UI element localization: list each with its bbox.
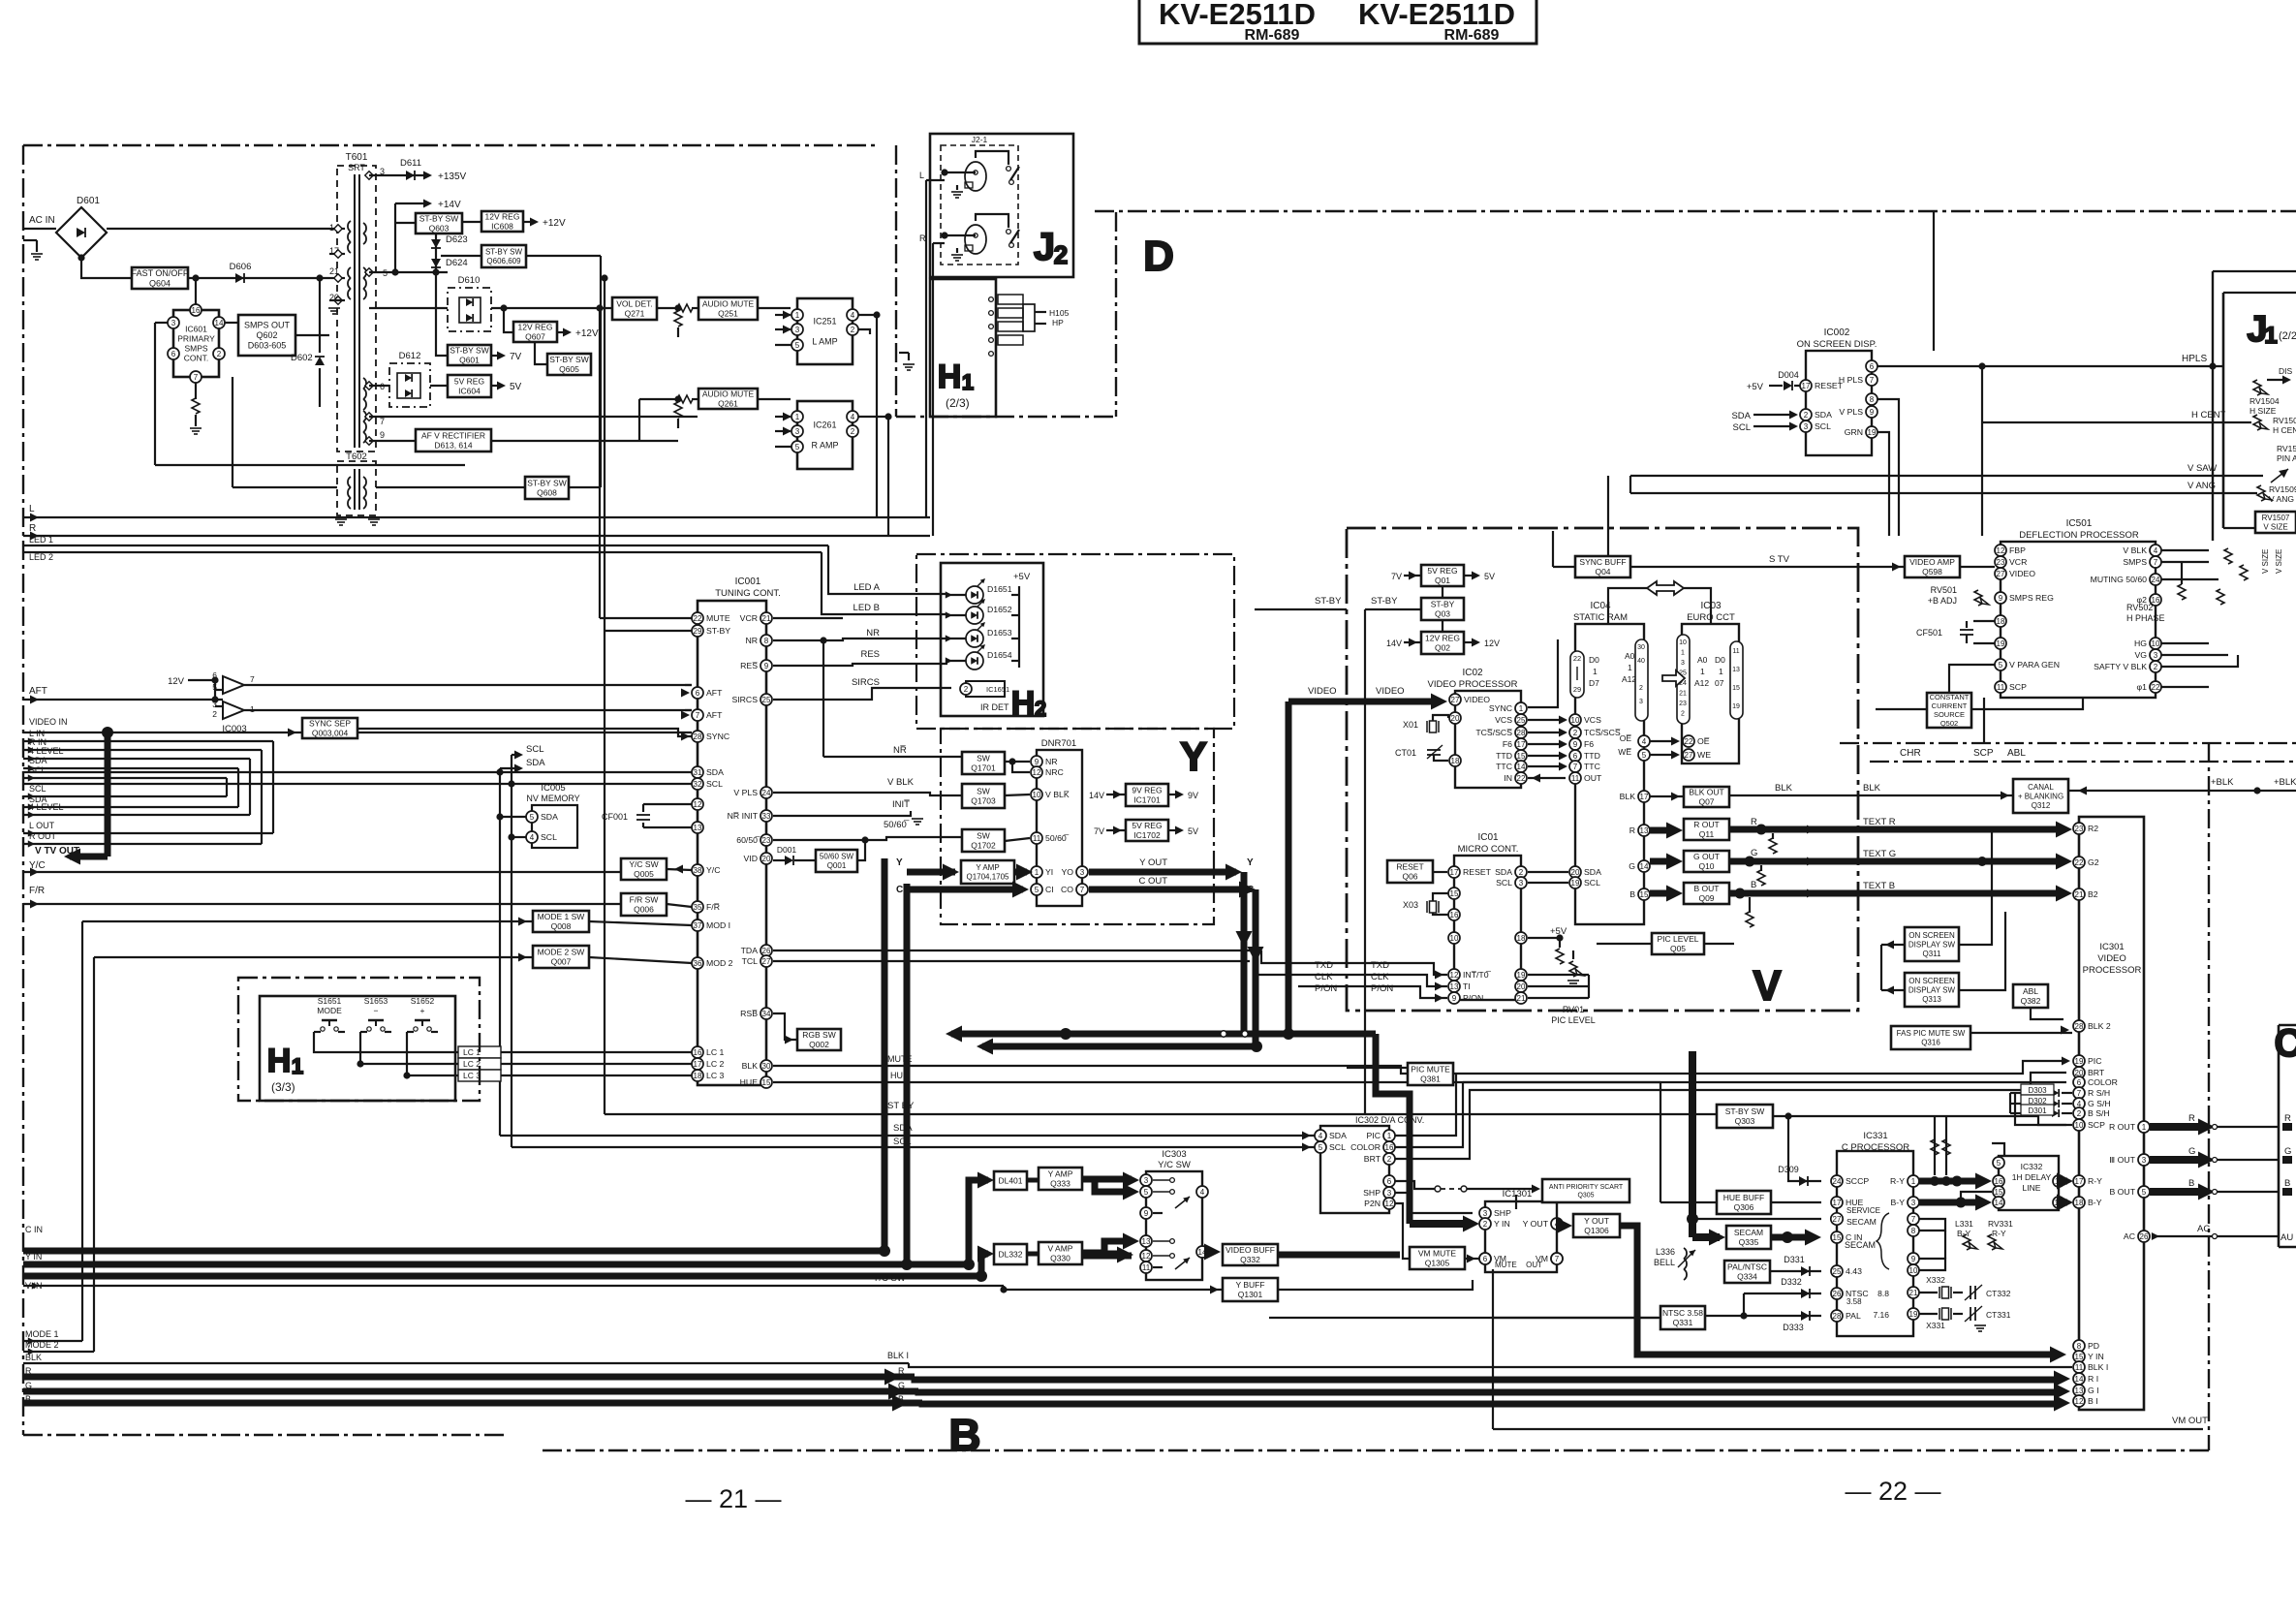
svg-text:+BLK: +BLK [2211,777,2234,788]
svg-text:4: 4 [1642,737,1647,746]
svg-text:9V: 9V [1188,791,1198,800]
svg-text:X01: X01 [1403,720,1418,730]
svg-text:CLK: CLK [1371,972,1389,982]
svg-text:7: 7 [380,417,385,426]
svg-text:14: 14 [215,319,224,327]
svg-text:D601: D601 [77,196,100,206]
svg-text:25: 25 [1517,716,1526,725]
svg-text:R: R [1751,817,1757,827]
svg-text:V BLK: V BLK [2123,545,2147,555]
svg-text:CO: CO [1061,885,1073,894]
svg-text:23: 23 [1997,558,2005,567]
svg-text:VG: VG [2134,650,2147,660]
svg-text:TI: TI [1463,981,1471,991]
svg-text:SDA: SDA [541,812,558,822]
svg-text:13: 13 [2075,1386,2084,1395]
svg-text:L AMP: L AMP [812,337,837,347]
svg-text:20: 20 [1517,982,1526,991]
svg-text:SYNC: SYNC [1489,703,1512,713]
svg-text:NV MEMORY: NV MEMORY [526,794,579,803]
svg-text:17: 17 [1802,382,1811,390]
svg-text:D610: D610 [458,275,481,286]
svg-text:SW: SW [977,831,990,841]
svg-text:TXD: TXD [1315,960,1333,971]
svg-text:11: 11 [1033,834,1041,843]
svg-text:VIDEO IN: VIDEO IN [29,717,68,727]
svg-text:D001: D001 [777,845,797,855]
svg-text:13: 13 [1732,667,1740,673]
svg-text:2: 2 [212,709,217,719]
svg-text:BLK: BLK [1863,783,1881,794]
svg-text:R OUT: R OUT [1693,820,1719,829]
svg-text:Y BUFF: Y BUFF [1235,1280,1264,1290]
svg-text:5: 5 [1035,886,1039,894]
svg-text:D1653: D1653 [987,628,1012,638]
svg-text:15: 15 [2075,1353,2084,1361]
svg-text:V SIZE: V SIZE [2263,523,2287,532]
svg-text:SAFTY V BLK: SAFTY V BLK [2094,662,2147,671]
svg-text:C: C [2275,1022,2296,1065]
svg-text:5V: 5V [1188,826,1198,836]
svg-text:−: − [374,1006,379,1015]
svg-text:9: 9 [1870,408,1875,417]
svg-text:10: 10 [1033,791,1041,799]
svg-text:D1654: D1654 [987,650,1012,660]
svg-text:R-Y: R-Y [2088,1176,2102,1186]
svg-text:2: 2 [1639,685,1643,692]
svg-text:B: B [2188,1178,2194,1189]
svg-text:10: 10 [1679,639,1687,646]
svg-text:G: G [2284,1146,2291,1157]
svg-text:24: 24 [2152,576,2160,584]
svg-text:20: 20 [1571,868,1580,877]
svg-text:11: 11 [1571,774,1580,783]
svg-text:10: 10 [1571,716,1580,725]
svg-text:5: 5 [795,341,800,350]
svg-text:RM-689: RM-689 [1444,27,1500,44]
svg-text:15: 15 [762,1078,771,1087]
svg-text:30: 30 [1637,644,1645,651]
svg-text:BLK: BLK [25,1353,42,1362]
svg-text:R OUT: R OUT [29,831,57,841]
svg-text:Q607: Q607 [525,332,545,342]
svg-text:V SIZE: V SIZE [2275,549,2283,574]
svg-text:C IN: C IN [25,1225,43,1234]
svg-text:RV1508: RV1508 [2273,416,2296,425]
svg-text:7: 7 [194,373,199,382]
svg-text:3: 3 [1519,879,1524,888]
svg-text:IC1651: IC1651 [986,685,1009,694]
svg-text:J2-1: J2-1 [972,135,988,144]
svg-text:28: 28 [1833,1312,1842,1321]
svg-text:21: 21 [1909,1289,1918,1297]
svg-text:1: 1 [1911,1177,1916,1186]
svg-text:— 21 —: — 21 — [685,1484,781,1513]
svg-text:H CENT: H CENT [2191,410,2226,421]
svg-text:4.43: 4.43 [1846,1266,1862,1276]
svg-text:LC 1: LC 1 [463,1047,481,1057]
svg-text:Q261: Q261 [718,399,738,409]
svg-text:7: 7 [1870,376,1875,385]
svg-text:3: 3 [171,319,176,327]
svg-text:Y IN: Y IN [2088,1352,2104,1361]
svg-text:2: 2 [1681,711,1685,718]
svg-text:H: H [267,1043,292,1079]
svg-text:D303: D303 [2028,1086,2047,1095]
svg-text:Q598: Q598 [1922,567,1942,576]
svg-text:HUE BUFF: HUE BUFF [1723,1193,1765,1202]
svg-text:Q1704,1705: Q1704,1705 [966,873,1009,882]
svg-text:SERVICE: SERVICE [1846,1206,1880,1215]
svg-text:25: 25 [762,696,771,704]
svg-text:B2: B2 [2088,889,2098,899]
svg-text:ST BY: ST BY [887,1101,915,1111]
svg-text:17: 17 [1517,740,1526,749]
svg-text:CHR: CHR [1900,748,1921,759]
svg-text:PIC MUTE: PIC MUTE [1411,1065,1450,1075]
svg-text:VCS: VCS [1495,715,1512,725]
svg-text:HUE: HUE [890,1071,909,1080]
svg-text:COLOR: COLOR [2088,1077,2118,1087]
svg-text:3: 3 [1911,1199,1916,1207]
svg-text:23: 23 [2075,825,2084,833]
svg-text:ST-BY SW: ST-BY SW [485,248,523,257]
svg-text:Q603: Q603 [429,224,450,234]
svg-text:Q333: Q333 [1050,1179,1070,1189]
svg-text:A12: A12 [1622,674,1636,684]
svg-text:LINE: LINE [2023,1183,2041,1193]
svg-text:16: 16 [1995,1177,2003,1186]
svg-text:6: 6 [1483,1255,1488,1263]
svg-text:18: 18 [1451,757,1460,765]
svg-text:13: 13 [1450,982,1459,991]
svg-text:BLK: BLK [1620,792,1636,801]
svg-text:22: 22 [1573,654,1581,663]
svg-text:RM-689: RM-689 [1245,27,1300,44]
svg-text:19: 19 [2075,1057,2084,1066]
svg-text:SCP: SCP [2088,1120,2105,1130]
svg-text:12V REG: 12V REG [1425,634,1460,643]
svg-text:4 LEVEL: 4 LEVEL [29,746,64,756]
svg-text:6: 6 [2077,1078,2082,1087]
svg-text:BLK 2: BLK 2 [2088,1021,2111,1031]
svg-text:LC 2: LC 2 [463,1059,481,1069]
svg-text:VCR: VCR [2009,557,2027,567]
svg-text:AFT: AFT [29,686,47,697]
svg-text:36: 36 [694,959,702,968]
svg-text:Q006: Q006 [634,905,654,915]
svg-text:2: 2 [1483,1220,1488,1229]
svg-text:TEXT B: TEXT B [1863,881,1895,891]
svg-text:— 22 —: — 22 — [1845,1477,1940,1506]
svg-text:3: 3 [795,326,800,334]
svg-text:B: B [1751,880,1756,890]
svg-text:Q604: Q604 [149,278,171,288]
svg-text:CURRENT: CURRENT [1932,701,1968,710]
svg-text:23: 23 [762,836,771,845]
svg-text:SCL: SCL [1496,878,1512,888]
svg-text:H105: H105 [1049,308,1070,318]
svg-text:VIDEO: VIDEO [1308,686,1337,697]
svg-text:10: 10 [2075,1121,2084,1130]
svg-text:Y IN: Y IN [1494,1219,1510,1229]
svg-text:3: 3 [1639,699,1643,705]
svg-text:H PLS: H PLS [1839,375,1863,385]
svg-text:Y: Y [1247,857,1254,868]
svg-text:1: 1 [292,1054,303,1078]
svg-text:3: 3 [795,427,800,436]
svg-text:PD: PD [2088,1341,2099,1351]
svg-text:+5V: +5V [1747,382,1764,392]
svg-text:TTD: TTD [1496,751,1512,761]
svg-text:9: 9 [1911,1255,1916,1263]
svg-text:V ANG: V ANG [2187,481,2216,491]
svg-text:PROCESSOR: PROCESSOR [2083,965,2142,976]
svg-text:ANTI PRIORITY SCART: ANTI PRIORITY SCART [1549,1184,1624,1191]
svg-text:5: 5 [1999,661,2003,670]
svg-text:5V REG: 5V REG [1132,821,1162,830]
svg-text:1: 1 [795,413,800,421]
svg-text:SYNC: SYNC [706,732,729,741]
svg-text:H SIZE: H SIZE [2249,406,2277,416]
svg-text:CLK: CLK [1315,972,1333,982]
svg-text:S1652: S1652 [411,996,435,1006]
svg-text:Y OUT: Y OUT [1523,1219,1549,1229]
svg-text:26: 26 [1833,1290,1842,1298]
svg-text:R OUT: R OUT [2109,1122,2136,1132]
svg-text:HPLS: HPLS [2182,354,2207,364]
svg-text:IC331: IC331 [1863,1131,1887,1141]
svg-text:NR: NR [1045,757,1058,766]
svg-text:23: 23 [1679,701,1687,707]
svg-text:B-Y: B-Y [2088,1198,2102,1207]
svg-text:8: 8 [2077,1342,2082,1351]
svg-text:ST-BY SW: ST-BY SW [549,355,588,364]
svg-text:14: 14 [1640,862,1649,871]
svg-text:Q003,004: Q003,004 [312,729,349,738]
svg-text:2: 2 [1804,411,1809,420]
svg-text:12: 12 [2075,1397,2084,1406]
svg-text:F/R SW: F/R SW [630,895,659,905]
svg-text:Q1701: Q1701 [971,763,996,773]
svg-text:27: 27 [1685,751,1693,760]
svg-text:NRC: NRC [1045,767,1064,777]
svg-text:18: 18 [1517,934,1526,943]
svg-text:IC604: IC604 [458,387,481,396]
svg-text:5V REG: 5V REG [454,377,484,387]
svg-text:Y/C SW: Y/C SW [1158,1160,1191,1170]
svg-text:3.58: 3.58 [1846,1297,1862,1306]
svg-text:6: 6 [696,689,700,698]
svg-text:IC1701: IC1701 [1133,795,1161,805]
svg-text:ABL: ABL [2023,986,2038,996]
svg-text:1H DELAY: 1H DELAY [2012,1172,2052,1182]
svg-text:MOD I: MOD I [706,920,730,930]
svg-text:32: 32 [694,780,702,789]
svg-text:Q316: Q316 [1921,1039,1940,1047]
svg-text:1: 1 [1628,663,1632,672]
svg-text:Q1306: Q1306 [1584,1226,1609,1235]
svg-text:Ⅲ OUT: Ⅲ OUT [2109,1155,2135,1165]
svg-text:NR̅: NR̅ [893,745,907,756]
svg-text:X331: X331 [1926,1321,1945,1330]
svg-text:Y/C: Y/C [706,865,720,875]
svg-text:A12: A12 [1694,678,1709,688]
svg-text:1: 1 [1681,650,1685,657]
svg-text:11: 11 [1732,648,1739,655]
svg-text:SCL: SCL [29,765,47,775]
svg-text:Q312: Q312 [2032,801,2051,810]
svg-text:F6: F6 [1584,739,1594,749]
svg-text:FBP: FBP [2009,545,2026,555]
svg-text:SYNC SEP: SYNC SEP [309,719,351,729]
svg-text:SDA: SDA [1495,867,1512,877]
svg-text:Q005: Q005 [634,869,654,879]
svg-text:AC IN: AC IN [29,215,55,226]
svg-text:PIC LEVEL: PIC LEVEL [1551,1015,1596,1025]
svg-text:19: 19 [1997,639,2005,648]
svg-text:DISPLAY SW: DISPLAY SW [1908,985,1956,994]
svg-text:AUDIO MUTE: AUDIO MUTE [702,389,755,399]
svg-text:2: 2 [217,350,222,358]
svg-text:12V REG: 12V REG [485,212,520,222]
svg-text:+B ADJ: +B ADJ [1928,596,1957,606]
svg-text:HG: HG [2134,639,2147,648]
svg-text:SYNC BUFF: SYNC BUFF [1579,557,1626,567]
svg-text:6: 6 [1387,1177,1392,1186]
svg-text:Q332: Q332 [1240,1255,1260,1264]
svg-text:60/50̅: 60/50̅ [736,835,760,845]
svg-text:11: 11 [1142,1263,1151,1272]
svg-text:LC 1: LC 1 [706,1047,725,1057]
svg-text:D611: D611 [400,158,421,169]
svg-text:2: 2 [1387,1155,1392,1164]
svg-text:+BLK: +BLK [2274,777,2296,788]
svg-text:31: 31 [694,768,702,777]
svg-text:2: 2 [1519,868,1524,877]
svg-text:SW: SW [977,787,990,796]
svg-text:Q605: Q605 [559,364,579,374]
svg-text:MUTE: MUTE [887,1054,913,1064]
svg-text:29: 29 [1573,685,1581,694]
svg-text:21: 21 [762,614,771,623]
svg-text:3: 3 [1681,660,1685,667]
svg-text:1: 1 [2142,1123,2147,1132]
svg-text:12: 12 [1033,768,1041,777]
svg-text:Q02: Q02 [1435,643,1450,653]
svg-text:1: 1 [795,311,800,320]
svg-text:VIDEO: VIDEO [2009,569,2035,578]
svg-text:4: 4 [851,413,855,421]
svg-text:5: 5 [1642,751,1647,760]
svg-text:1: 1 [1035,868,1039,877]
svg-text:Q502: Q502 [1940,719,1958,728]
svg-text:LC 2: LC 2 [706,1059,725,1069]
svg-text:V SIZE: V SIZE [2261,549,2270,574]
svg-text:CONT.: CONT. [184,354,209,363]
svg-text:20: 20 [1451,714,1460,723]
svg-text:R-Y: R-Y [1992,1229,2006,1238]
svg-text:ON SCREEN DISP.: ON SCREEN DISP. [1797,339,1877,350]
svg-text:AC: AC [2197,1224,2210,1234]
svg-text:Q007: Q007 [551,957,572,967]
svg-text:IC01: IC01 [1477,832,1499,843]
svg-text:Y: Y [1180,733,1207,779]
svg-text:Y AMP: Y AMP [1048,1169,1073,1179]
svg-text:P/ON: P/ON [1315,983,1337,994]
svg-text:P2N: P2N [1364,1199,1381,1208]
svg-text:CONSTANT: CONSTANT [1930,693,1970,701]
svg-text:J: J [1034,226,1055,268]
svg-text:IR DET: IR DET [980,702,1009,712]
svg-text:WE̅: WE̅ [1618,747,1631,757]
svg-text:D1652: D1652 [987,605,1012,614]
svg-text:1: 1 [1519,704,1524,713]
svg-text:Y OUT: Y OUT [1584,1216,1609,1226]
svg-text:V PLS: V PLS [1839,407,1863,417]
svg-text:SMPS: SMPS [2123,557,2147,567]
svg-text:34: 34 [762,1010,771,1018]
svg-text:FAS PIC MUTE SW: FAS PIC MUTE SW [1897,1029,1966,1038]
svg-text:RV01: RV01 [1563,1005,1584,1014]
svg-text:G S/H: G S/H [2088,1099,2111,1108]
svg-text:Q382: Q382 [2021,996,2041,1006]
svg-text:50/60 SW: 50/60 SW [820,853,854,861]
svg-text:NR̅ INIT: NR̅ INIT [728,811,759,821]
svg-text:SHP: SHP [1494,1208,1511,1218]
svg-text:10: 10 [1450,934,1459,943]
svg-text:IC301: IC301 [2099,942,2124,952]
svg-text:+: + [420,1006,425,1015]
svg-text:CT01: CT01 [1395,748,1416,758]
svg-text:17: 17 [1450,868,1459,877]
svg-text:27: 27 [762,957,771,966]
svg-text:26: 26 [762,947,771,955]
svg-text:L: L [29,504,35,514]
svg-text:SDA: SDA [526,758,545,768]
svg-text:20: 20 [762,855,771,863]
svg-text:4 LEVEL: 4 LEVEL [29,802,64,812]
svg-text:28: 28 [694,732,702,741]
svg-text:B OUT: B OUT [2109,1187,2135,1197]
svg-text:Q05: Q05 [1670,944,1686,953]
svg-text:1: 1 [1387,1132,1392,1140]
svg-text:PIC: PIC [1367,1131,1381,1140]
svg-text:8.8: 8.8 [1877,1289,1889,1298]
svg-text:MODE: MODE [317,1006,342,1015]
svg-text:SIRCS: SIRCS [731,695,758,704]
svg-text:6: 6 [1573,752,1578,761]
svg-text:V PARA GEN: V PARA GEN [2009,660,2060,670]
svg-text:G: G [898,1381,905,1390]
svg-text:Q381: Q381 [1420,1075,1441,1084]
svg-text:SMPS: SMPS [184,344,207,354]
svg-text:VIDEO: VIDEO [1464,695,1490,704]
svg-text:(2/3): (2/3) [946,396,970,410]
svg-text:4: 4 [1200,1188,1205,1197]
svg-text:MOD 2: MOD 2 [706,958,733,968]
svg-text:SDA: SDA [1584,867,1601,877]
svg-text:C OUT: C OUT [1138,876,1167,887]
svg-text:SCP: SCP [2009,682,2027,692]
svg-text:OE̅: OE̅ [1697,736,1710,746]
svg-text:CANAL: CANAL [2028,783,2054,792]
svg-text:6: 6 [1870,362,1875,371]
svg-text:22: 22 [694,614,702,623]
svg-text:3: 3 [1080,868,1085,877]
svg-text:7.16: 7.16 [1873,1310,1889,1320]
svg-text:D603-605: D603-605 [248,341,287,351]
